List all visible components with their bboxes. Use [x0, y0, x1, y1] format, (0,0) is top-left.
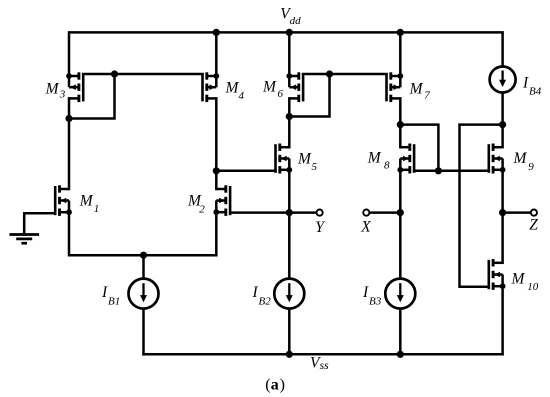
wire M1 source to M2 source [69, 212, 216, 255]
wire M6-M7 gate line [303, 73, 386, 76]
wire M3 gate-drain diode [69, 74, 115, 119]
terminal Y [317, 210, 323, 216]
svg-text:ss: ss [320, 360, 329, 372]
label M5 [297, 150, 318, 173]
transistor M3 [66, 72, 83, 102]
terminal X [363, 210, 369, 216]
label Vss [310, 355, 329, 372]
wire Y to IB2 [288, 213, 291, 279]
wire IB1 bottom lead [142, 309, 145, 355]
wire M1 gate to ground [24, 213, 55, 234]
wire M2 gate to Y [230, 211, 316, 214]
wire M3 drain to M1 drain [68, 98, 71, 189]
wire IB3 to Vss [399, 309, 402, 355]
wire M5 gate line [216, 170, 275, 173]
wire M6 drain to M5 drain [288, 98, 291, 147]
svg-text:4: 4 [239, 90, 245, 102]
node P M7-M8 drain junction [397, 121, 404, 128]
wire M8 source down to X [399, 170, 402, 213]
current source IB2 [274, 279, 304, 309]
node M3 gate junction [111, 70, 118, 77]
label M7 [409, 81, 431, 102]
current source IB4 [490, 67, 516, 93]
svg-text:8: 8 [384, 160, 390, 172]
transistor M5 [276, 144, 293, 174]
wire IB4 to node A [501, 93, 504, 125]
svg-text:Z: Z [529, 216, 538, 233]
svg-text:3: 3 [59, 89, 66, 101]
node Vdd-M4 junction [213, 29, 220, 36]
wire M3-M4 gate line [83, 73, 202, 76]
svg-text:9: 9 [528, 161, 534, 173]
svg-text:I: I [252, 284, 259, 301]
wire X terminal lead [370, 211, 401, 214]
wire M4 source to Vdd [215, 32, 218, 76]
svg-text:B2: B2 [259, 296, 272, 308]
svg-text:M: M [225, 80, 240, 97]
svg-text:M: M [297, 150, 312, 167]
svg-text:5: 5 [312, 161, 318, 173]
wire M10 source to Vss [501, 286, 504, 354]
wire IB1 top lead [142, 255, 145, 278]
wire IB2 to Vss [288, 309, 291, 355]
svg-text:M: M [367, 150, 382, 167]
label IB1 [101, 284, 120, 308]
label Z [529, 216, 538, 233]
node M6 drain junction [286, 113, 293, 120]
wire P to M8-M9 gates [400, 125, 438, 171]
node Vss-IB2 junction [286, 351, 293, 358]
wire Z terminal lead [503, 211, 531, 214]
wire M4 drain to M2 drain [215, 98, 218, 189]
node Y [286, 209, 293, 216]
wire M9 source down to Z [501, 170, 504, 213]
label M3 [45, 81, 66, 101]
terminal Z [531, 210, 537, 216]
transistor M1 [55, 185, 72, 216]
wire M7 source to Vdd [399, 32, 402, 76]
svg-text:I: I [101, 284, 108, 301]
current source IB3 [385, 279, 415, 309]
label Vdd [280, 6, 301, 28]
svg-text:6: 6 [278, 88, 284, 100]
svg-text:7: 7 [424, 90, 430, 102]
node tail junction to IB1 [140, 252, 147, 259]
label M1 [79, 192, 100, 215]
transistor M7 [387, 72, 404, 102]
svg-text:10: 10 [527, 281, 539, 293]
transistor M2 [213, 185, 230, 216]
node X [397, 209, 404, 216]
label M9 [513, 150, 535, 173]
svg-text:2: 2 [199, 204, 205, 216]
label Y [315, 219, 325, 236]
current source IB1 [129, 279, 159, 309]
node M6 gate junction [326, 70, 333, 77]
svg-text:M: M [45, 81, 60, 98]
node Vdd-M7 junction [397, 29, 404, 36]
node M4-M2 drain junction [213, 167, 220, 174]
label M6 [262, 79, 284, 101]
ground [9, 235, 39, 244]
label M4 [225, 80, 245, 103]
svg-text:1: 1 [94, 203, 100, 215]
svg-text:M: M [513, 150, 528, 167]
wire M8-M9 gate line [414, 170, 489, 173]
svg-text:Y: Y [315, 219, 325, 236]
label IB2 [252, 284, 272, 308]
node A IB4-M9-M10gate [499, 121, 506, 128]
node Z [499, 209, 506, 216]
label M8 [367, 150, 390, 172]
node gate line junction [435, 167, 442, 174]
transistor M6 [286, 72, 303, 102]
svg-text:B4: B4 [529, 85, 542, 97]
transistor M4 [203, 72, 220, 102]
svg-text:M: M [79, 192, 94, 209]
svg-text:dd: dd [290, 15, 302, 27]
node Vdd-M6 junction [286, 29, 293, 36]
svg-text:X: X [360, 219, 371, 236]
svg-text:): ) [280, 377, 285, 394]
transistor M9 [489, 144, 506, 174]
label X [360, 219, 371, 236]
wire M9 drain to node A [501, 125, 504, 148]
svg-text:M: M [409, 81, 424, 98]
svg-text:M: M [262, 79, 277, 96]
wire M7 drain to M8 drain [399, 98, 402, 147]
transistor M10 [489, 259, 506, 290]
svg-text:B3: B3 [369, 296, 382, 308]
label (a) [265, 377, 285, 394]
svg-text:I: I [522, 74, 529, 91]
label M10 [511, 271, 539, 294]
label IB3 [362, 284, 382, 308]
wire node A to M10 gate [460, 125, 503, 287]
svg-text:a: a [271, 377, 279, 394]
wire M6 gate-drain diode [289, 74, 329, 117]
transistor M8 [397, 144, 414, 174]
label M2 [187, 192, 205, 215]
wire M5 source down to Y [288, 170, 291, 213]
svg-text:M: M [511, 271, 526, 288]
label IB4 [522, 74, 542, 97]
wire M6 source to Vdd [288, 32, 291, 76]
wire Z to M10 drain [501, 213, 504, 263]
wire Vss rail [144, 353, 503, 356]
node Vss-IB3 junction [397, 351, 404, 358]
node M3 drain junction [65, 115, 72, 122]
svg-text:B1: B1 [108, 296, 120, 308]
svg-text:I: I [362, 284, 369, 301]
wire Vdd rail [69, 32, 503, 76]
wire X to IB3 [399, 213, 402, 279]
